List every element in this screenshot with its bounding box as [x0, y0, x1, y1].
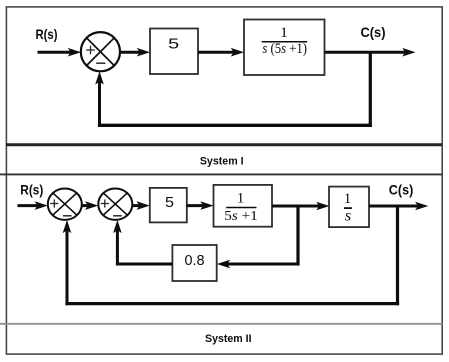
summing junction S2a	[48, 189, 82, 220]
svg-text:1: 1	[344, 191, 352, 207]
wire summer S2a to summer S2b	[82, 201, 99, 210]
svg-text:s (5s +1): s (5s +1)	[262, 41, 307, 57]
label C(s) output System II	[389, 181, 414, 197]
value label 1/s	[344, 191, 352, 225]
svg-text:C(s): C(s)	[361, 24, 386, 40]
svg-text:s: s	[345, 207, 352, 224]
minus sign of summer S2b	[113, 215, 122, 217]
value label 1/(5s+1)	[224, 191, 258, 223]
svg-text:System II: System II	[205, 333, 252, 345]
separator line below System I caption	[0, 173, 443, 175]
wire block G1 to output C(s)	[325, 48, 416, 57]
block gain 5 (System II)	[150, 188, 187, 223]
wire block 5 to block G2	[187, 201, 214, 210]
block G1 transfer function 1/(s(5s+1))	[244, 20, 325, 76]
svg-text:5: 5	[168, 35, 179, 52]
wire block G3 to output C(s)	[369, 202, 428, 211]
plus sign of summer S2a	[50, 199, 58, 207]
wire input to summer S1	[38, 48, 82, 57]
plus sign of summer S1	[86, 46, 95, 55]
svg-text:5s +1: 5s +1	[224, 208, 258, 223]
value label 5 (System II)	[165, 195, 174, 211]
wire inner feedback to block 0.8	[217, 260, 300, 269]
caption System II	[205, 333, 252, 345]
svg-text:C(s): C(s)	[389, 181, 414, 197]
label R(s) input System II	[20, 181, 43, 197]
wire summer S2b to block 5	[132, 201, 150, 210]
summing junction S2b	[98, 189, 132, 220]
value label 0.8	[185, 252, 205, 269]
svg-text:0.8: 0.8	[185, 252, 205, 269]
svg-text:System I: System I	[200, 156, 244, 168]
plus sign of summer S2b	[101, 199, 109, 207]
svg-text:5: 5	[165, 195, 174, 211]
block gain 5 (System I)	[150, 29, 198, 75]
wire feedback bottom System I	[98, 124, 372, 127]
value label 5	[168, 35, 179, 52]
caption System I	[200, 156, 244, 168]
node inner feedback tap	[296, 206, 299, 266]
wire feedback rise to summer S1	[95, 71, 104, 127]
block H 0.8	[172, 245, 216, 281]
block G3 transfer function 1/s	[329, 187, 369, 228]
separator line above System II caption	[0, 323, 443, 325]
separator line above System I caption	[6, 143, 442, 146]
wire outer feedback rise to summer S2a	[63, 220, 72, 305]
svg-text:1: 1	[280, 25, 288, 41]
value label 1/(s(5s+1))	[262, 25, 308, 57]
wire outer feedback bottom	[65, 302, 399, 305]
label C(s) output System I	[361, 24, 386, 40]
wire block 0.8 to summer S2b	[113, 220, 172, 266]
summing junction S1	[81, 32, 120, 71]
svg-text:R(s): R(s)	[36, 26, 58, 42]
minus sign of summer S2a	[63, 215, 72, 217]
svg-text:1: 1	[237, 191, 245, 207]
wire block G2 to block G3	[272, 202, 330, 211]
svg-text:R(s): R(s)	[20, 181, 43, 197]
wire summer S1 to block 5	[120, 48, 150, 57]
block G2 transfer function 1/(5s+1)	[214, 185, 273, 227]
label R(s) input System I	[36, 26, 58, 42]
node outer feedback tap	[396, 206, 399, 305]
wire block 5 to block G1	[198, 48, 244, 57]
wire input to summer S2a	[18, 201, 48, 210]
node feedback tap System I	[369, 52, 372, 127]
minus sign of summer S1	[96, 62, 105, 64]
